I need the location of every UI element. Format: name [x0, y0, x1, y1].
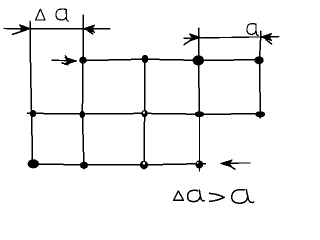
- arrow pointing left toward node (200,164): [221, 160, 250, 169]
- wire: left extension line x=30: [30, 21, 33, 166]
- node row1 (259,60): [254, 56, 263, 64]
- arrowhead: Δa right (points left at x=83): [83, 25, 94, 34]
- label Δ (bottom formula): [174, 191, 184, 200]
- wire: column line x=144: [143, 57, 146, 170]
- wire: column line x=260: [260, 31, 262, 118]
- arrow pointing right at node (83,60): [52, 56, 77, 65]
- node row3 big (33,164): [28, 159, 39, 168]
- wire: column line x=199: [199, 28, 200, 171]
- node row1 (83,60): [79, 57, 87, 64]
- node row3 (84,165): [80, 162, 88, 169]
- node row2 ring (144.6,113.6): [141, 110, 147, 117]
- label a2 (bottom formula): [232, 190, 254, 204]
- wire: lattice row 2 (y=113): [28, 112, 265, 115]
- dimension line a (top-right): [184, 37, 279, 39]
- node row3 (199.4,164.5): [196, 161, 204, 169]
- dimension line Δa (top-left): [4, 28, 110, 30]
- wire: column line x=83: [82, 15, 84, 169]
- arrowhead: a left (points right at x=200): [184, 34, 201, 45]
- label a (top-left): [56, 9, 68, 21]
- arrowhead: Δa left (points right at x=30): [13, 25, 31, 35]
- label a1 (bottom formula): [188, 190, 205, 201]
- wire: lattice row 1 (y=60): [81, 59, 259, 60]
- wire: lattice row 3 (y=164): [28, 164, 206, 165]
- arrowhead: a right (points left at x=261): [261, 33, 272, 43]
- node row1 (145,59): [142, 55, 149, 64]
- node row2 (260.2,114.3): [255, 111, 265, 117]
- label Δ (top-left): [36, 9, 45, 20]
- label > (bottom formula): [210, 193, 225, 201]
- node row1 big (198,60): [193, 55, 204, 65]
- node row3 ring (144,165): [140, 161, 148, 169]
- label a (top-right): [247, 24, 258, 36]
- node row2 (82,114.5): [80, 111, 85, 118]
- node row2 (33,113.6): [30, 110, 37, 117]
- node row2 (199.4,114.2): [195, 111, 205, 117]
